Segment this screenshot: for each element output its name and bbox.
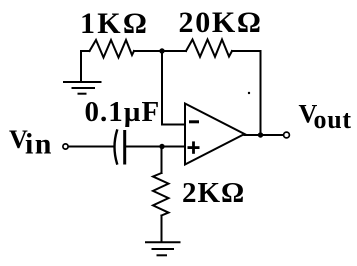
svg-text:1KΩ: 1KΩ [80,7,149,40]
svg-text:0.1µF: 0.1µF [85,96,161,128]
svg-text:20KΩ: 20KΩ [179,6,263,39]
svg-text:2KΩ: 2KΩ [182,177,245,209]
svg-text:out: out [314,105,352,134]
svg-text:in: in [25,128,53,161]
